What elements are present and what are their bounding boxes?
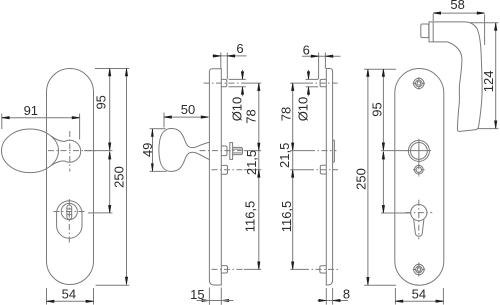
arrow dim15 right [221,299,229,301]
svg-text:78: 78 [244,109,259,123]
centerline lower box 3 [308,169,338,171]
dim 15 line [197,300,234,302]
arrow dim116 top [258,170,260,178]
dim 91 extension right [79,114,81,140]
top screw sleeve S2a [221,79,227,86]
keyhole circle [411,205,427,221]
arrow dim124 top [495,23,497,31]
arrow dim124 bottom [495,121,497,129]
svg-text:116,5: 116,5 [279,201,294,233]
centerline knob axis [200,150,245,152]
ext lower box to dim [244,169,261,171]
top screw T4 outer [414,78,424,88]
dim 54 extension left [46,288,48,305]
keyhole cross horizontal [405,212,432,214]
arrow dim54-4 right [436,300,444,302]
centerline bottom screw vertical [418,263,420,277]
svg-text:50: 50 [181,102,195,117]
keyhole slot [414,219,424,236]
svg-text:78: 78 [279,107,294,121]
ext lower box to dim 3 [290,169,308,171]
svg-text:Ø10: Ø10 [230,97,245,122]
dim 54 line [47,300,94,302]
arrow dim8 right [333,299,341,301]
small screw tick W [413,169,416,171]
ext top sleeve to dim 3 [290,82,307,84]
ext lower sleeve to dim 3 [290,268,303,270]
bottom screw slot [417,268,421,272]
top screw tick S [418,87,420,90]
arrow dim78 top [258,83,260,91]
small screw M4 inner [416,167,421,172]
svg-text:124: 124 [481,71,496,93]
spindle hub block [221,146,227,156]
arrow dim49 top [151,129,153,137]
top screw tick E [422,82,425,84]
dim 8 ext right [332,288,334,305]
arrow dim8 left [319,299,327,301]
ext lower sleeve to dim [244,268,261,270]
centerline vertical through escutcheon [68,199,70,243]
key slot [67,205,72,219]
dim 54 line 4 [395,300,443,302]
dim 15 ext left [208,288,210,305]
arrow chain4 bottom [382,205,384,213]
centerline horizontal through knob [48,150,96,152]
ext top sleeve to dim [244,82,261,84]
lever collar line [432,22,434,42]
lower box B2 [221,165,228,174]
dim o10b line lower [308,87,310,97]
dim 124 line [495,23,497,128]
knob K1 neck bottom [52,161,65,166]
dim 49 ext top [150,128,166,130]
small screw tick N [418,164,420,167]
dim o10a line upper [242,70,244,79]
dim 78/21.5/116.5 line b [292,83,294,269]
arrow dim116 bottom [258,262,260,270]
arrow dim250-4 top [367,69,369,77]
arrow dim54 right [86,300,94,302]
dim 49 line [152,129,154,171]
hub pad [333,140,335,162]
dim 95/250 top ext 4 [364,68,396,70]
arrow o10a top [241,72,243,80]
cylinder center extension right [88,212,112,214]
knob K1 collar arc [65,140,81,162]
svg-text:21,5: 21,5 [244,150,259,175]
centerline lower sleeve [212,268,245,270]
centerline top sleeve [204,82,245,84]
plate bottom ext 4 [364,284,396,286]
arrow dim54 left [47,300,55,302]
dim o10a ext bottom [229,86,246,88]
lower box B3 [320,165,326,174]
hub H4 outer circle [408,140,429,161]
lever handle outline [429,22,482,132]
knob K2 head and neck profile [159,128,210,171]
arrow dim54-4 left [395,300,403,302]
dim 6a ext right [226,53,228,80]
plate P3 side profile [326,69,332,286]
dim 58 line [433,12,484,14]
svg-text:Ø10: Ø10 [296,97,311,122]
dim 250 line 4 [367,69,369,285]
arrow dim58 left [433,12,441,14]
svg-text:250: 250 [111,166,126,188]
svg-text:8: 8 [343,286,350,301]
svg-text:250: 250 [354,168,369,190]
knob K1 oval head [2,129,59,173]
oval escutcheon E1 [57,201,82,239]
knob center extension right [84,150,112,152]
centerline top sleeve 3 [307,82,338,84]
dim 8 ext left [325,288,327,305]
svg-text:49: 49 [140,143,155,157]
centerline lower sleeve 3 [303,268,338,270]
arrow o10a bottom [241,87,243,95]
arrow dim250 bottom [125,277,127,285]
arrow dim95-4 bottom [382,143,384,151]
svg-text:58: 58 [450,0,464,12]
bottom screw B4 outer [414,264,424,274]
svg-text:21,5: 21,5 [277,143,292,168]
arrow dim250 top [125,69,127,77]
spindle rod [233,147,243,154]
dim 15 ext right [220,288,222,305]
plate P1 outline [47,69,94,285]
centerline horizontal through cylinder [54,211,88,213]
arrow dim78b top [292,83,294,91]
dim 78/21.5/116.5 line [258,83,260,269]
arrow chain4 top [382,152,384,160]
dim 95 line 4 [382,69,384,150]
bottom screw tick N [418,263,420,266]
hub cross horizontal [407,150,431,152]
spindle rod chamfer line 1 [233,148,242,150]
dim chain line 4 [382,152,384,213]
bottom screw tick S [418,273,420,276]
dim chain (knob to cylinder) line [109,152,111,213]
dim 91 extension left [1,114,3,130]
svg-text:95: 95 [93,95,108,109]
arrow dim49 bottom [151,164,153,172]
keyhole cross vertical [418,200,420,239]
svg-text:95: 95 [370,102,385,116]
arrow dim95-4 top [382,69,384,77]
dim 6a ext left [220,53,222,69]
arrow dim50 right [201,116,209,118]
svg-text:116,5: 116,5 [243,201,258,233]
arrow dim78b bottom [292,143,294,151]
dim 6b ext left [318,53,320,80]
knob K1 neck top [52,136,65,141]
ext knob axis to dim [244,150,261,152]
centerline lower box [212,169,245,171]
dim 58 ext right [484,15,486,46]
dim o10a ext top [229,78,246,80]
centerline handle axis 3 [309,150,337,152]
key slot tick 1 [67,208,72,210]
dim 91 line [2,117,80,119]
arrow dim6a left [213,55,221,57]
arrow dim91 right [72,117,80,119]
arrow chain bottom [109,205,111,213]
arrow dim50 left [164,116,172,118]
arrow dim58 right [477,12,485,14]
dim 6b ext right [324,53,326,69]
arrow dim15 left [202,299,210,301]
svg-text:6: 6 [236,41,243,56]
bottom screw tick E [422,269,425,271]
dim 8 line [318,300,349,302]
dim 95/250 top extension [95,68,129,70]
arrow dim6b left [311,55,319,57]
arrow o10b bottom [307,87,309,95]
dim 54 ext left 4 [394,288,396,305]
dim 6b line [302,55,341,57]
dim 124 ext bottom [478,128,499,130]
dim 6a line [212,55,246,57]
top screw tick W [413,82,416,84]
arrow dim6a right [227,55,235,57]
dim 124 ext top [470,22,498,24]
svg-text:54: 54 [412,287,426,302]
keyhole center ext 4 [381,212,410,214]
arrow dim95 bottom [109,143,111,151]
svg-text:6: 6 [303,43,310,58]
dim 49 ext bottom [150,170,167,172]
centerline small screw vertical [418,163,420,176]
arrow dim116b top [292,170,294,178]
plate P2 side profile [209,69,221,285]
dim 95 line [109,69,111,151]
dim o10a line lower [242,87,244,97]
bottom screw tick W [413,269,416,271]
arrow dim6b right [325,55,333,57]
arrow dim116b bottom [292,262,294,270]
ext handle axis to dim 3 [290,150,309,152]
spindle flange [230,143,233,160]
dim 54 extension right [93,288,95,305]
top screw tick N [418,77,420,80]
svg-text:15: 15 [190,287,204,302]
dim o10b ext bottom [306,86,319,88]
dim 58 ext left [432,14,434,21]
hub H4 inner circle [411,143,428,160]
lower screw sleeve S2b [221,266,228,273]
small screw M4 outer [414,165,423,174]
dim 54 ext right 4 [442,288,444,305]
top screw slot [417,82,421,86]
spindle rod chamfer line 2 [233,152,242,154]
cylinder circle C1 [61,203,77,219]
svg-text:91: 91 [24,103,38,118]
plate P4 outline [395,69,444,286]
bottom screw B4 inner [416,266,423,273]
dim 50 ext left [163,113,165,128]
lower screw sleeve S3b [320,266,327,273]
hub cross vertical [418,139,420,163]
lever spindle cap [421,24,429,38]
dim 50 line [164,116,208,118]
top screw sleeve S3a [320,79,326,86]
hub center ext 4 [381,150,408,152]
dim 250 line [126,69,128,285]
dim o10b ext top [306,78,319,80]
dim o10b line upper [308,70,310,79]
arrow dim250-4 bottom [367,277,369,285]
arrow dim91 left [2,117,10,119]
svg-text:54: 54 [62,287,76,302]
arrow o10b top [307,72,309,80]
plate bottom extension right [96,284,130,286]
small screw tick E [422,169,425,171]
top screw T4 inner [416,80,423,87]
key slot tick 2 [67,214,72,216]
arrow chain top [109,152,111,160]
small screw tick S [418,173,420,176]
arrow dim78 bottom [258,143,260,151]
centerline vertical through knob [69,131,71,172]
arrow dim95 top [109,69,111,77]
